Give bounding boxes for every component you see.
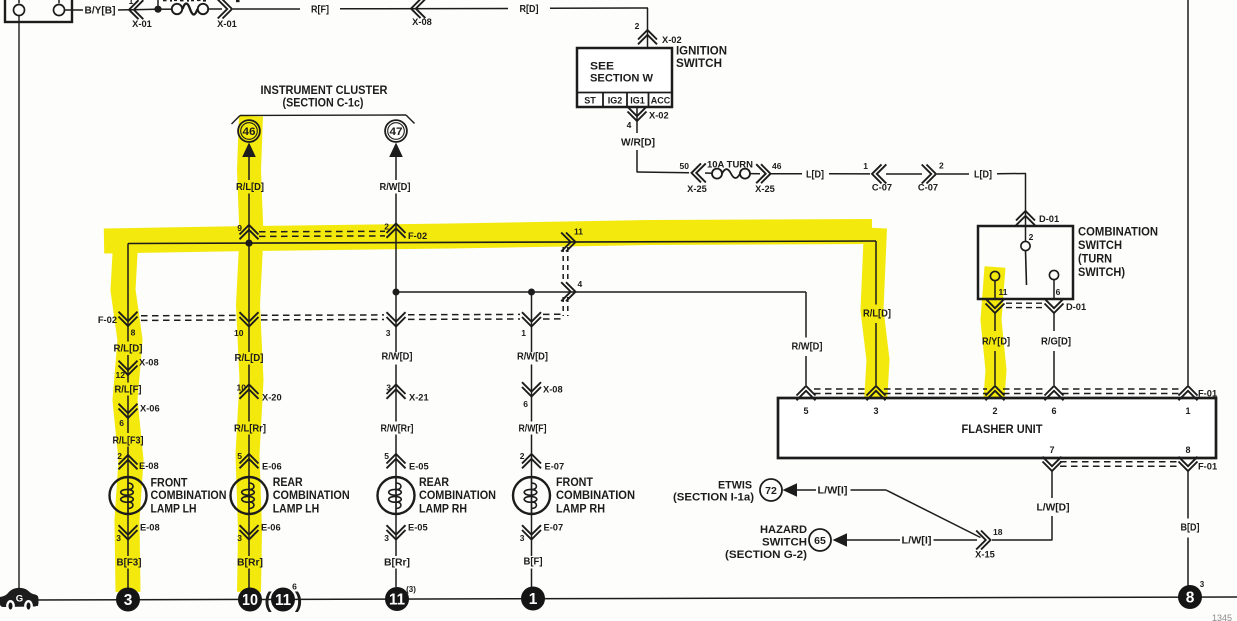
svg-text:E-08: E-08 [139,461,159,471]
connector F-02 pin 4 (in-line) [561,282,575,301]
highlighted circuit path (flasher pin 3 wire) [872,228,878,412]
svg-text:3: 3 [873,406,878,416]
svg-text:6: 6 [1051,406,1056,416]
connector F-02 pin 8 [119,312,138,326]
svg-text:B[Rr]: B[Rr] [237,558,263,569]
wire between C-07 halves [886,173,922,175]
pin label 3 (F-02) [386,328,391,338]
svg-text:L/W[I]: L/W[I] [818,486,848,497]
terminal circle 65 [809,529,831,551]
connector X-01 pin 1 [129,0,143,19]
svg-text:8: 8 [1185,445,1190,455]
svg-text:6: 6 [523,399,528,409]
pin label 8 [131,328,136,338]
svg-text:SEE: SEE [590,61,614,73]
junction node at main fuse [154,0,161,13]
svg-text:12: 12 [116,370,126,380]
connector X-20 pin 10 [240,385,259,399]
terminal circle 46 [238,120,260,142]
connector name X-02 (bottom) [649,111,669,121]
junction node at column 4 [528,289,535,296]
terminal circle 72 [760,479,782,501]
svg-text:R/L[Rr]: R/L[Rr] [234,424,266,435]
flasher unit box [778,398,1216,458]
svg-text:L/W[D]: L/W[D] [1037,503,1070,514]
svg-text:COMBINATION: COMBINATION [1078,227,1158,239]
svg-text:6: 6 [119,418,124,428]
connector name X-15 [975,550,995,560]
svg-text:2: 2 [384,222,389,232]
arrow into hazard switch [833,533,848,547]
svg-text:G: G [16,594,23,605]
svg-text:R/W[D]: R/W[D] [517,352,548,363]
pin label 9 [237,223,242,233]
pin label 3 (E-08) [116,533,121,543]
wire label R/W[D] (flasher) [792,342,823,353]
harness F-01 dashes (top bus) [814,389,1180,394]
pin label 11 (turn switch) [999,287,1008,297]
wire label W/R[D] [621,138,655,149]
svg-text:1: 1 [521,328,526,338]
connector name D-01 (top) [1039,214,1059,224]
connector name X-08 (top) [412,17,432,27]
wire from terminal 6 [1053,280,1055,300]
harness F-02 vertical dashes (4 to bus) [563,297,568,316]
wire down to combination switch [1025,174,1027,227]
svg-text:LAMP RH: LAMP RH [419,503,467,515]
svg-text:(SECTION C-1c): (SECTION C-1c) [283,98,364,110]
svg-text:R/L[D]: R/L[D] [863,309,891,320]
wire R/W[D] from cluster 47 [395,156,397,292]
wire L[D] (left of C-07) [771,173,870,175]
wire B[D] from flasher pin 8 [1187,471,1189,586]
svg-text:(SECTION I-1a): (SECTION I-1a) [673,492,754,504]
component label COMBINATION SWITCH (TURN SWITCH) [1078,227,1158,280]
connector name E-05 (lower) [408,523,428,533]
svg-text:COMBINATION: COMBINATION [273,490,350,502]
component label INSTRUMENT CLUSTER (SECTION C-1c) [261,85,389,110]
connector name C-07 (right) [918,183,938,193]
svg-text:COMBINATION: COMBINATION [419,490,496,502]
svg-text:E-08: E-08 [140,523,160,533]
svg-text:5: 5 [803,406,808,416]
connector name X-02 (top) [662,35,682,45]
wire label L/W[I] (ETWIS) [818,486,848,497]
svg-text:X-20: X-20 [262,393,282,403]
connector name X-01 (right) [217,19,237,29]
svg-text:4: 4 [578,279,583,289]
pin label 11 (F-02) [574,227,583,237]
terminal 6 of turn switch [1049,270,1058,279]
svg-text:R/L[D]: R/L[D] [235,353,264,364]
component label FLASHER UNIT [962,424,1043,436]
svg-text:X-21: X-21 [409,393,429,403]
arrow into terminal 46 [242,143,256,158]
svg-text:3: 3 [520,533,525,543]
pin label 6 (X-06) [119,418,124,428]
junction node at column 3 [393,289,400,296]
svg-text:B[F]: B[F] [524,557,543,568]
pin label 18 [993,527,1003,537]
svg-text:2: 2 [992,406,997,416]
wire label R/L[D] (col 2) [235,353,264,364]
connector name C-07 (left) [872,183,892,193]
connector E-05 pin 3 [387,525,406,539]
terminal 11 of turn switch [990,271,999,280]
svg-text:18: 18 [993,527,1003,537]
svg-text:8: 8 [1186,590,1195,607]
svg-text:11: 11 [574,227,583,237]
svg-text:REAR: REAR [273,477,304,489]
connector E-08 pin 3 [119,525,138,539]
svg-text:X-06: X-06 [140,404,160,414]
svg-text:FLASHER UNIT: FLASHER UNIT [962,424,1043,436]
svg-text:5: 5 [384,451,389,461]
highlighted circuit path (left front turn lamp wire, column 1) [123,236,131,592]
connector name E-07 (lower) [544,523,564,533]
svg-text:72: 72 [765,485,777,497]
svg-text:R/W[D]: R/W[D] [792,342,823,353]
svg-text:10: 10 [237,383,247,393]
connector name X-08 (col 1) [139,358,159,368]
connector name X-06 [140,404,160,414]
connector C-07 pin 1 [872,164,886,183]
wire label L/W[D] [1037,503,1070,514]
harness F-02 dashes (upper bus) [259,231,385,236]
svg-text:SWITCH: SWITCH [676,58,722,70]
svg-text:5: 5 [237,451,242,461]
ignition switch box [577,48,672,107]
component label ETWIS (SECTION I-1a) [673,480,754,504]
connector name E-06 (upper) [262,462,282,472]
wire column 2 (R/L) [248,243,250,477]
harness name F-02 (lower) [98,315,117,325]
pin label 3 (E-06) [237,533,242,543]
svg-text:B[F3]: B[F3] [117,558,142,569]
svg-text:X-15: X-15 [975,550,995,560]
svg-text:F-02: F-02 [98,315,117,325]
svg-text:R/W[F]: R/W[F] [519,424,547,435]
svg-text:(TURN: (TURN [1078,254,1112,266]
wire R[D] [550,7,648,9]
pin label 3 (flasher) [873,406,878,416]
connector X-06 pin 6 [119,404,138,418]
pin label 1 (flasher) [1185,406,1190,416]
wire label L[D] (right) [974,170,992,181]
connector name X-08 (col 4) [543,385,563,395]
wire label L/W[I] (hazard) [902,536,932,547]
connector F-02 pin 10 [240,312,259,326]
front combination lamp RH [513,477,550,514]
wire label R/L[D] (cluster) [236,182,264,193]
svg-text:IG1: IG1 [630,96,645,106]
connector F-02 pin 11 (in-line) [561,233,575,252]
svg-text:R/L[F3]: R/L[F3] [113,436,144,447]
page number (bottom right, cut) [1212,613,1232,621]
ground 8 [1178,580,1205,609]
svg-text:4: 4 [627,120,632,130]
component label HAZARD SWITCH (SECTION G-2) [725,524,807,561]
wire column 4 (R/W) [531,292,533,477]
wire label R/L[F3] [113,436,144,447]
svg-text:2: 2 [117,451,122,461]
connector F-01 pin 3 [867,386,886,400]
svg-text:ACC: ACC [651,96,671,106]
pin label 10 (F-02) [234,328,244,338]
svg-text:LAMP RH: LAMP RH [556,503,605,515]
svg-text:(SECTION G-2): (SECTION G-2) [725,549,807,561]
svg-text:6: 6 [292,582,297,592]
svg-text:47: 47 [390,126,403,138]
connector D-01 (top of combination switch) [1016,211,1035,225]
pin label 6 (X-08) [523,399,528,409]
svg-text:1345: 1345 [1212,613,1232,621]
connector F-02 pin 3 [387,312,406,326]
component label REAR COMBINATION LAMP LH [273,477,350,515]
wire label B[Rr] (col 3) [384,558,410,569]
pin label 3 (E-07) [520,533,525,543]
connector F-01 pin 8 [1179,457,1198,471]
left vertical wire from junction block [18,16,20,591]
pin label 4 (F-02) [578,279,583,289]
svg-text:C-07: C-07 [872,183,892,193]
svg-text:B/Y[B]: B/Y[B] [85,6,116,17]
diagonal wire to ETWIS [886,490,981,538]
pin label 7 (flasher) [1049,445,1054,455]
pin label 1 (F-02) [521,328,526,338]
connector X-02 pin 2 (top of ignition switch) [638,30,657,44]
pin label 4 (X-02 bottom) [627,120,632,130]
svg-text:F-02: F-02 [408,231,427,241]
fuse MAIN (top left) [161,4,222,15]
svg-text:2: 2 [1029,232,1034,242]
svg-text:65: 65 [814,535,826,547]
harness name F-01 (top) [1198,389,1217,399]
rear combination lamp RH [378,477,415,514]
connector E-06 pin 3 [240,525,259,539]
svg-text:3: 3 [1200,580,1205,589]
wire label R[F] [311,5,329,16]
svg-text:LAMP LH: LAMP LH [273,503,320,515]
connector X-01 (right) [218,0,232,19]
svg-text:R/Y[D]: R/Y[D] [982,337,1010,348]
svg-text:(3): (3) [406,585,416,594]
wire column 1 (R/L) [127,244,129,478]
svg-text:1: 1 [1185,406,1190,416]
wire label R/Y[D] [982,337,1010,348]
wire into ignition switch [647,8,649,48]
svg-text:2: 2 [520,451,525,461]
svg-text:R/G[D]: R/G[D] [1041,337,1071,348]
svg-text:R/L[D]: R/L[D] [236,182,264,193]
svg-text:E-06: E-06 [261,523,281,533]
svg-text:L[D]: L[D] [806,170,824,181]
svg-text:R/L[D]: R/L[D] [114,344,143,355]
terminal 2 of turn switch [1021,241,1030,250]
svg-text:3: 3 [386,383,391,393]
component label REAR COMBINATION LAMP RH [419,477,496,515]
connector F-02 pin 9 [240,225,259,239]
connector E-05 pin 5 [387,454,406,468]
ground bus line [28,597,1237,600]
main feed wire (horizontal R/L[D]) [128,241,876,244]
pin label 1 (X-01) [129,0,134,6]
connector X-08 (top) [411,0,425,18]
component label IGNITION SWITCH [676,46,727,71]
svg-text:50: 50 [680,161,690,171]
pin label 1 (C-07) [863,161,868,171]
svg-text:C-07: C-07 [918,183,938,193]
svg-text:2: 2 [939,161,944,171]
combination switch box [978,226,1073,299]
wire label B[F3] [117,558,142,569]
highlighted circuit path (horizontal R/L[D] feed wire) [104,232,872,242]
svg-text:ETWIS: ETWIS [718,480,752,492]
highlighted circuit path (instrument cluster 46 / rear lamp LH wire, column 2) [248,116,252,592]
svg-text:10: 10 [242,592,258,609]
battery/junction block (top left, cut off at top) [5,0,72,22]
connector name X-20 [262,393,282,403]
svg-text:B[D]: B[D] [1181,523,1200,534]
connector E-07 pin 2 [522,454,541,468]
wire label R/W[D] (col 4) [517,352,548,363]
connector name X-21 [409,393,429,403]
wire W/R[D] [637,107,689,173]
wire R[F] [233,8,508,11]
svg-text:X-02: X-02 [662,35,682,45]
svg-text:3: 3 [237,533,242,543]
wire label B[D] [1181,523,1200,534]
wire R/L[D] to flasher pin 3 [875,241,877,385]
pin label (cut) above X-01 right [236,0,240,2]
pin label 2 (turn switch) [1029,232,1034,242]
connector name E-07 (upper) [545,462,565,472]
connector X-02 pin 4 (bottom of ignition switch) [628,107,647,121]
wire L/W[I] to ETWIS [797,489,886,491]
svg-text:D-01: D-01 [1039,214,1059,224]
svg-text:9: 9 [237,223,242,233]
wire below lamp 4 [531,514,533,587]
fuse label (cut off at top) [163,0,206,2]
wire R/L[D] from cluster 46 [248,156,250,243]
wire label R/L[D] (col 1) [114,344,143,355]
svg-text:IG2: IG2 [608,96,623,106]
pin label 2 (E-08) [117,451,122,461]
connector E-06 pin 5 [240,454,259,468]
pin label 2 (E-07) [520,451,525,461]
wire column 3 (R/W) [395,292,397,477]
wire label R[D] [520,4,539,15]
fuse 10A TURN [705,169,760,179]
svg-text:X-02: X-02 [649,111,669,121]
wire L/W[I] to hazard switch [847,539,977,541]
wire R/W[D] to flasher pin 5 [805,292,807,385]
component label FRONT COMBINATION LAMP RH [556,477,635,515]
pin label 10 (X-20) [237,383,247,393]
svg-text:INSTRUMENT CLUSTER: INSTRUMENT CLUSTER [261,85,389,97]
svg-text:E-05: E-05 [409,462,429,472]
wire label R/L[F] [115,385,142,396]
connector X-08 pin 6 (col 4) [522,382,541,396]
connector E-07 pin 3 [522,525,541,539]
wire label R/W[F] [519,424,547,435]
svg-text:FRONT: FRONT [151,478,188,490]
svg-text:LAMP LH: LAMP LH [151,503,197,515]
connector F-01 pin 1 [1179,386,1198,400]
svg-text:REAR: REAR [419,477,450,489]
svg-text:COMBINATION: COMBINATION [151,490,227,502]
connector name E-06 (lower) [261,523,281,533]
component label FRONT COMBINATION LAMP LH [151,478,227,516]
svg-text:11: 11 [999,287,1008,297]
connector F-01 pin 6 [1045,386,1064,400]
body ground car symbol [0,588,39,611]
svg-text:FRONT: FRONT [556,477,593,489]
svg-text:11: 11 [389,592,405,609]
connector F-01 pin 2 [986,386,1005,400]
svg-text:X-01: X-01 [132,19,152,29]
wire below lamp 2 [248,514,250,588]
connector name E-08 (lower) [140,523,160,533]
wire to terminal 2 [1025,226,1027,242]
svg-text:E-07: E-07 [544,523,564,533]
pin label 6 (flasher) [1051,406,1056,416]
svg-text:B[Rr]: B[Rr] [384,558,410,569]
svg-text:HAZARD: HAZARD [760,524,807,536]
wire label B/Y[B] [85,6,116,17]
svg-text:F-01: F-01 [1198,389,1217,399]
ground 3 [116,588,140,612]
svg-text:SECTION W: SECTION W [590,73,654,85]
connector F-01 pin 5 [797,386,816,400]
pin label 46 [772,161,782,171]
ground 10 [238,588,262,612]
svg-text:6: 6 [1056,287,1061,297]
arrow into terminal 47 [389,143,403,158]
wire L/W[D] from flasher pin 7 [992,471,1052,541]
connector name X-25 (left) [687,184,707,194]
svg-text:10: 10 [234,328,244,338]
connector D-01 pin 11 (below box) [986,299,1005,313]
svg-text:SWITCH: SWITCH [1078,240,1122,252]
svg-text:3: 3 [116,533,121,543]
svg-text:D-01: D-01 [1066,302,1086,312]
svg-text:E-06: E-06 [262,462,282,472]
svg-text:ST: ST [584,96,596,106]
wire label B[F] [524,557,543,568]
svg-text:E-05: E-05 [408,523,428,533]
svg-text:10A TURN: 10A TURN [707,160,753,170]
wire label R/L[D] (flasher) [863,309,891,320]
terminal circle 47 [385,120,407,142]
pin label 2 (X-02 top) [635,21,640,31]
svg-text:X-08: X-08 [139,358,159,368]
svg-text:X-25: X-25 [755,184,775,194]
wire to flasher pin 1 (right edge) [1187,0,1189,385]
svg-text:F-01: F-01 [1198,462,1217,472]
harness name F-02 (upper) [408,231,427,241]
svg-text:R[D]: R[D] [520,4,539,15]
ground (11) alternate [264,582,302,613]
svg-text:X-08: X-08 [543,385,563,395]
harness name F-01 (bottom) [1198,462,1217,472]
wire L[D] (right of C-07) [937,173,1026,176]
pin label 5 (E-06) [237,451,242,461]
harness dashes between D-01 pins [1006,303,1043,307]
rear combination lamp LH [231,477,268,514]
svg-text:COMBINATION: COMBINATION [556,490,635,502]
svg-text:3: 3 [384,533,389,543]
